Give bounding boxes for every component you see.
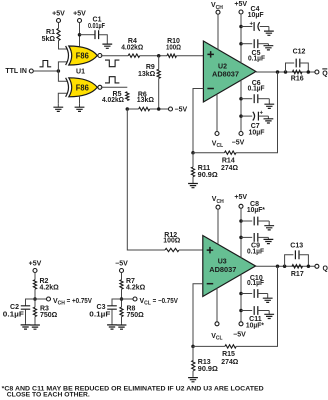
wire (58, 23, 60, 29)
svg-text:274Ω: 274Ω (221, 165, 238, 172)
node C13 left junction (283, 265, 287, 269)
clamp input VCL terminal (U2) (215, 132, 219, 136)
ground (25, 324, 27, 325)
wire (241, 98, 252, 100)
svg-text:0.1µF: 0.1µF (248, 86, 266, 93)
op-amp U3 AD8037 (203, 236, 256, 297)
svg-text:R16: R16 (291, 75, 304, 82)
svg-text:−5V: −5V (175, 107, 188, 114)
node C5 junction (239, 42, 243, 46)
wire (26, 299, 36, 306)
wire (240, 208, 242, 257)
svg-text:0.1µF: 0.1µF (89, 312, 111, 319)
node U2 output/feedback (276, 70, 280, 74)
wire (217, 14, 219, 49)
resistor R5 4.02k&#937; (126, 92, 129, 101)
node U2 inverting junction (191, 151, 195, 155)
wire (241, 43, 252, 45)
wire (121, 289, 123, 307)
wire (79, 97, 81, 104)
resistor R15 274&#937; (225, 345, 236, 348)
wire (241, 236, 252, 238)
ground (79, 104, 81, 107)
wire (240, 14, 242, 63)
svg-text:4.02kΩ: 4.02kΩ (121, 44, 143, 51)
wire (140, 55, 167, 57)
svg-text:10µF*: 10µF* (246, 322, 264, 329)
svg-text:5kΩ: 5kΩ (42, 36, 56, 43)
wire (158, 78, 160, 109)
wire (217, 209, 219, 244)
net VCH terminal (47, 297, 51, 301)
capacitor C1 0.01&#181;F (95, 30, 99, 39)
wire (58, 71, 67, 81)
node C (R6/R9 junction) (157, 107, 161, 111)
ground (192, 376, 194, 377)
svg-text:U1: U1 (76, 68, 85, 75)
resistor R3 750&#937; (33, 307, 36, 317)
svg-text:F86: F86 (76, 51, 89, 61)
wire (127, 108, 138, 110)
ground (57, 104, 59, 107)
wire (216, 94, 218, 131)
ground (111, 324, 113, 325)
wire (241, 115, 252, 117)
node C8 junction (239, 219, 243, 223)
svg-text:AD8037: AD8037 (212, 71, 239, 78)
svg-text:U2: U2 (218, 64, 227, 71)
svg-text:−5V: −5V (233, 331, 246, 338)
svg-text:274Ω: 274Ω (221, 359, 238, 366)
resistor R7 4.2k&#937; (120, 280, 123, 289)
xor gate U1a F86 (69, 46, 98, 65)
svg-text:TTL IN: TTL IN (5, 68, 27, 75)
resistor R13 90.9&#937; (192, 360, 195, 370)
clamp input VCL terminal (U3) (215, 322, 219, 326)
svg-text:+5V: +5V (73, 10, 86, 17)
svg-text:10µF: 10µF (248, 12, 265, 19)
input pulse waveform (40, 61, 52, 67)
svg-text:90.9Ω: 90.9Ω (198, 172, 218, 179)
svg-text:4.2kΩ: 4.2kΩ (40, 284, 60, 291)
xor gate U1b F86 (69, 78, 98, 97)
power -5V terminal (U2) (239, 132, 243, 136)
node U3 output/feedback (276, 265, 280, 269)
node C13 right junction (307, 265, 311, 269)
node VCH divider junction (33, 297, 37, 301)
node U1 VCC junction (78, 33, 82, 37)
op-amp U2 AD8037 (203, 41, 256, 102)
svg-text:R1: R1 (46, 29, 55, 36)
output Qbar terminal (315, 70, 319, 74)
wire (241, 220, 252, 222)
svg-text:100Ω: 100Ω (163, 237, 180, 244)
wire (80, 34, 95, 36)
power -5V terminal (169, 107, 173, 111)
svg-text:13kΩ: 13kΩ (138, 71, 156, 78)
wire (99, 35, 108, 43)
wire (192, 153, 194, 167)
wire (193, 89, 203, 153)
wire (33, 70, 58, 72)
wire (150, 108, 169, 110)
svg-text:R13: R13 (198, 359, 211, 366)
svg-text:+5V: +5V (52, 10, 65, 17)
node C9 junction (239, 236, 243, 240)
wire (236, 266, 277, 346)
ground (34, 324, 36, 325)
wire (25, 309, 27, 323)
resistor R8 750&#937; (120, 307, 123, 317)
svg-text:0.1µF: 0.1µF (247, 249, 265, 256)
ground (106, 43, 108, 45)
node C4 junction (239, 25, 243, 29)
svg-text:+5V: +5V (234, 1, 247, 8)
wire (236, 72, 278, 153)
node U3 inverting junction (191, 345, 195, 349)
resistor R10 100&#937; (167, 54, 177, 57)
wire (240, 274, 242, 321)
ground (268, 99, 270, 105)
resistor R17 (292, 265, 303, 268)
svg-text:AD8037: AD8037 (209, 267, 236, 274)
wire (216, 288, 218, 322)
svg-text:Q: Q (322, 71, 328, 78)
wire (192, 177, 194, 182)
wire (79, 23, 81, 47)
wire (58, 93, 67, 104)
resistor R2 4.2k&#937; (33, 280, 36, 289)
svg-text:13kΩ: 13kΩ (137, 97, 155, 104)
wire (111, 309, 113, 323)
capacitor C9 0.1&#181;F (254, 233, 258, 242)
resistor R1 5k&#937; (57, 28, 60, 40)
node TTL input junction (57, 69, 61, 73)
ground (121, 324, 123, 325)
node C11 junction (239, 309, 243, 313)
wire (193, 284, 203, 347)
svg-text:R14: R14 (222, 158, 235, 165)
ground (267, 294, 269, 299)
wire (240, 80, 242, 131)
node C10 junction (239, 292, 243, 296)
wire (59, 41, 68, 50)
wire (256, 265, 315, 267)
resistor R12 100&#937; (165, 248, 179, 251)
wire (241, 293, 252, 295)
ground (192, 182, 194, 184)
svg-text:R17: R17 (291, 271, 304, 278)
wire (127, 109, 165, 250)
resistor R16 (292, 70, 302, 73)
wire (122, 298, 134, 300)
wire (241, 26, 252, 28)
svg-text:C13: C13 (290, 242, 303, 249)
wire (101, 86, 128, 88)
svg-text:−5V: −5V (115, 261, 128, 268)
svg-text:−5V: −5V (232, 139, 245, 146)
svg-text:C2: C2 (10, 304, 19, 311)
svg-text:10µF*: 10µF* (247, 207, 265, 214)
svg-text:4.02kΩ: 4.02kΩ (102, 97, 124, 104)
ground (268, 27, 270, 32)
svg-text:R15: R15 (222, 351, 235, 358)
wire (192, 346, 194, 360)
wire (158, 56, 160, 70)
resistor R9 13k&#937; (157, 69, 160, 78)
power -5V terminal (U3) (239, 322, 243, 326)
capacitor C5 0.1&#181;F (254, 39, 258, 48)
wire (256, 71, 315, 73)
resistor R6 13k&#937; (139, 107, 150, 110)
resistor R14 274&#937; (225, 151, 237, 154)
svg-text:90.9Ω: 90.9Ω (198, 366, 218, 373)
wire (193, 152, 225, 154)
wire (193, 345, 225, 347)
svg-text:C12: C12 (293, 49, 306, 56)
node C12 left junction (284, 70, 288, 74)
node C12 right junction (307, 70, 311, 74)
ground (268, 221, 270, 226)
svg-text:C3: C3 (97, 304, 106, 311)
svg-text:100Ω: 100Ω (166, 44, 181, 51)
node VCL divider junction (120, 297, 124, 301)
capacitor C11 10&#181;F* (254, 306, 258, 315)
svg-text:750Ω: 750Ω (127, 312, 145, 319)
resistor R11 90.9&#937; (191, 167, 194, 177)
wire (241, 310, 252, 312)
svg-text:0.01µF: 0.01µF (88, 23, 106, 30)
svg-text:+5V: +5V (29, 261, 42, 268)
svg-text:+: + (250, 21, 254, 27)
wire (121, 317, 123, 324)
svg-text:F86: F86 (76, 82, 89, 92)
svg-text:750Ω: 750Ω (40, 312, 58, 319)
svg-text:10µF: 10µF (249, 130, 266, 137)
wire (121, 273, 123, 280)
svg-text:+5V: +5V (234, 194, 247, 201)
ground (267, 44, 269, 46)
svg-text:U3: U3 (218, 258, 227, 265)
wire (34, 317, 36, 324)
svg-text:0.1µF: 0.1µF (247, 280, 265, 287)
node B (R5/R6 junction) (126, 107, 130, 111)
svg-text:0.1µF: 0.1µF (248, 55, 266, 62)
wire (58, 62, 67, 71)
ground (267, 237, 269, 239)
node A (R4/R9/R10 junction) (157, 54, 161, 58)
ground (268, 311, 270, 315)
ground (267, 116, 269, 119)
node C7 junction (239, 114, 243, 118)
svg-text:CLOSE TO EACH OTHER.: CLOSE TO EACH OTHER. (7, 392, 90, 399)
output Q terminal (315, 264, 319, 268)
svg-text:Q: Q (323, 266, 328, 273)
resistor R4 4.02k&#937; (128, 54, 140, 57)
net VCL terminal (133, 297, 137, 301)
wire (177, 55, 204, 57)
svg-text:0.1µF: 0.1µF (3, 312, 25, 319)
inverted pulse waveform (105, 60, 119, 67)
wire (112, 299, 122, 306)
pulse waveform (105, 77, 119, 83)
svg-text:+: + (259, 110, 263, 116)
wire (34, 273, 36, 280)
wire (192, 371, 194, 376)
wire (179, 249, 203, 251)
svg-text:4.2kΩ: 4.2kΩ (126, 284, 146, 291)
capacitor C7 10&#181;F (257, 112, 259, 121)
wire (101, 55, 128, 57)
node C6 junction (239, 97, 243, 101)
wire (34, 289, 36, 307)
wire (35, 298, 47, 300)
